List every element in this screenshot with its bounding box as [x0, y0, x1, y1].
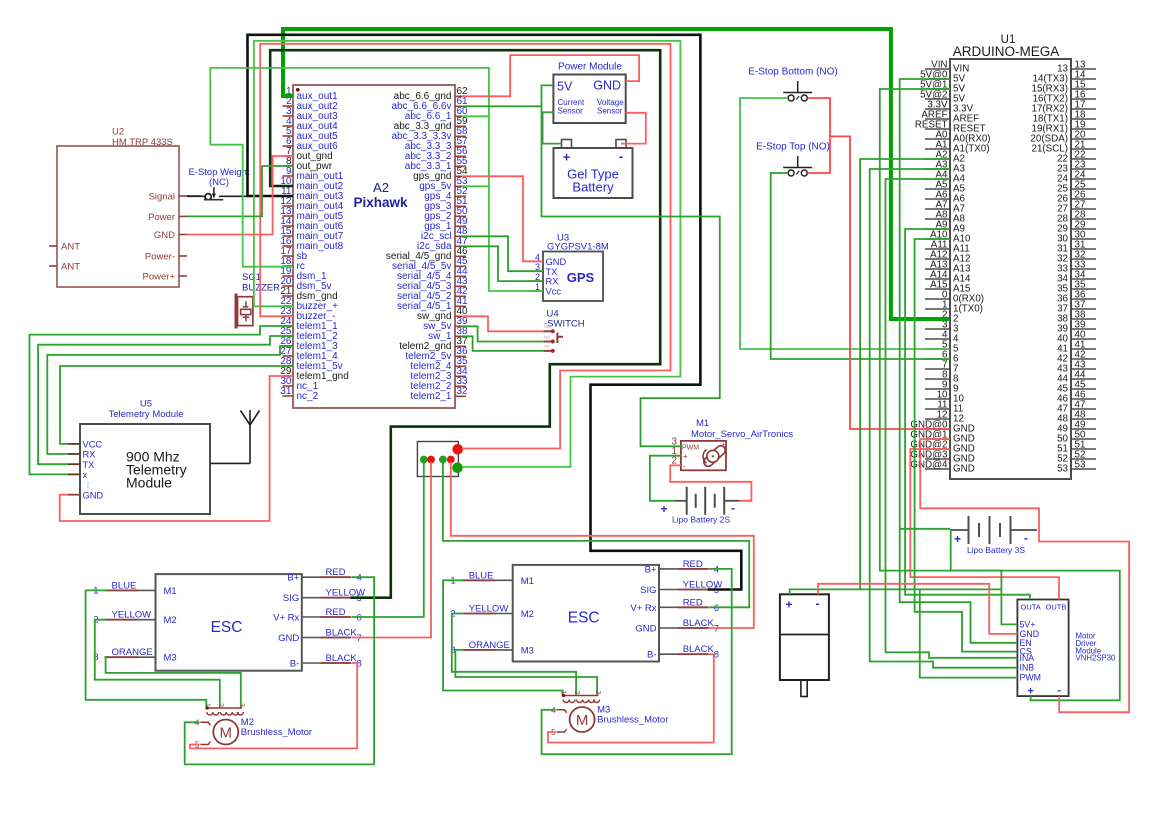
buzzer SG1: [236, 272, 280, 329]
connector block: [417, 442, 463, 477]
Arduino Mega U1: [910, 34, 1096, 479]
wire green 5V@0 to motor driver EN: [900, 79, 1018, 643]
wire green A9 to motor driver OUTA: [905, 229, 1030, 600]
wire green sw_1 to switch pin: [462, 336, 543, 351]
wire green current sensor to gel battery +: [543, 112, 562, 143]
svg-text:U5: U5: [140, 399, 152, 410]
svg-text:32: 32: [457, 386, 469, 397]
wire green A4 to motor driver INA: [886, 179, 1018, 658]
brushless motor M2: [195, 703, 312, 750]
wire thick green pin1 to Arduino pin 2: [283, 29, 950, 319]
battery Lipo 2S: [660, 487, 739, 525]
svg-text:Power+: Power+: [143, 271, 176, 282]
svg-text:4: 4: [714, 564, 719, 575]
wire green left ESC M2 to coil2: [95, 620, 220, 706]
svg-text:Brushless_Motor: Brushless_Motor: [241, 727, 312, 738]
svg-text:Brushless_Motor: Brushless_Motor: [597, 715, 668, 726]
wire green power module 5V to servo PWM: [542, 85, 720, 446]
svg-text:RX: RX: [546, 277, 559, 287]
svg-text:SIG: SIG: [283, 593, 299, 604]
svg-text:YELLOW: YELLOW: [112, 610, 152, 621]
svg-text:M1: M1: [521, 576, 534, 587]
svg-text:VCC: VCC: [83, 440, 103, 450]
svg-text:GND: GND: [154, 230, 175, 241]
wire green telem1_1 to U5 x: [30, 326, 294, 474]
wire green telem1_5v to U5 VCC: [60, 366, 293, 444]
wire red U2 GND to out_gnd: [187, 156, 293, 235]
wire green right ESC M2 to coil2: [452, 614, 576, 694]
wire green i2c_sda to GPS RX: [462, 246, 543, 281]
svg-text:GND: GND: [278, 633, 299, 644]
wire red servo minus to Lipo 2S minus: [670, 465, 751, 500]
svg-text:-SWITCH: -SWITCH: [544, 319, 585, 330]
svg-text:Sensor: Sensor: [558, 107, 584, 116]
svg-text:ORANGE: ORANGE: [469, 640, 510, 651]
wire red telem1_gnd to U5 GND: [60, 376, 293, 521]
svg-text:M3: M3: [164, 653, 177, 664]
svg-text:NO: NO: [544, 345, 550, 349]
svg-text:Motor_Servo_AirTronics: Motor_Servo_AirTronics: [691, 429, 793, 440]
svg-text:INA: INA: [1020, 653, 1035, 663]
svg-text:V+ Rx: V+ Rx: [630, 603, 656, 614]
svg-text:+: +: [683, 452, 688, 461]
svg-text:ORANGE: ORANGE: [112, 647, 153, 658]
wire green right ESC M3 to coil3: [455, 650, 597, 694]
svg-text:+: +: [660, 502, 667, 516]
svg-text:OUTB: OUTB: [1046, 603, 1067, 612]
wire green A2 to DC motor +: [790, 159, 1002, 594]
svg-text:ARDUINO-MEGA: ARDUINO-MEGA: [953, 44, 1060, 59]
svg-text:RED: RED: [683, 559, 703, 570]
svg-text:A2: A2: [373, 180, 389, 195]
wire green E-Stop Top to Arduino 6: [771, 173, 950, 359]
wire green sw_5v to switch pin: [462, 326, 543, 341]
wire red voltage sensor to gel battery -: [621, 113, 646, 144]
svg-text:B+: B+: [645, 564, 657, 575]
svg-text:Pixhawk: Pixhawk: [353, 195, 408, 210]
svg-text:M: M: [220, 725, 233, 742]
svg-text:GPS: GPS: [567, 270, 595, 285]
wire green connector to right ESC V+ Rx: [443, 462, 749, 607]
svg-text:ESC: ESC: [211, 619, 243, 636]
svg-text:-: -: [683, 462, 686, 471]
svg-text:+: +: [563, 150, 571, 165]
wire red E-Stop commons to GND@0: [808, 98, 951, 429]
wire dark green pin10 to left ESC SIG: [270, 50, 660, 598]
wire red connector to left ESC GND: [352, 462, 431, 638]
svg-text:Vcc: Vcc: [546, 287, 562, 297]
svg-text:-: -: [731, 501, 735, 515]
svg-text:Power-: Power-: [145, 251, 175, 262]
svg-text:HM TRP 433S: HM TRP 433S: [112, 137, 173, 148]
antenna: [210, 410, 260, 463]
flight controller A2 Pixhawk: [280, 85, 468, 408]
svg-text:SG1: SG1: [242, 272, 261, 283]
svg-text:E-Stop Bottom (NO): E-Stop Bottom (NO): [748, 67, 837, 78]
RF module U2 HM TRP 433S: [49, 127, 187, 287]
GPS module U3 GYGPSV1-8M: [527, 233, 609, 301]
svg-text:nc_2: nc_2: [297, 391, 319, 402]
wire green connector to left ESC V+ Rx: [352, 462, 424, 617]
wire green 5V@1 to motor driver +: [880, 89, 1120, 700]
svg-text:M3: M3: [521, 645, 534, 656]
telemetry module U5: [68, 399, 210, 515]
svg-text:Power: Power: [148, 212, 175, 223]
wire light green E-Stop Bottom to Arduino 5: [740, 98, 950, 349]
svg-text:BLUE: BLUE: [112, 580, 137, 591]
svg-text:B-: B-: [647, 650, 657, 661]
svg-text:GYGPSV1-8M: GYGPSV1-8M: [547, 242, 609, 253]
svg-text:V+ Rx: V+ Rx: [273, 613, 299, 624]
wire green Lipo 2S plus to servo +: [650, 456, 681, 501]
svg-text:VNH2SP30: VNH2SP30: [1076, 654, 1117, 663]
svg-text:E-Stop Top (NO): E-Stop Top (NO): [756, 142, 830, 153]
svg-text:TX: TX: [546, 267, 558, 277]
svg-text:Signal: Signal: [149, 191, 175, 202]
svg-text:PWM: PWM: [682, 444, 699, 451]
svg-text:31: 31: [280, 386, 292, 397]
wire red GND@2 to motor driver OUTB: [910, 449, 1059, 600]
wire green right ESC M1 to coil1: [443, 580, 562, 693]
svg-text:RED: RED: [683, 597, 703, 608]
svg-text:+: +: [1027, 686, 1033, 698]
svg-text:YELLOW: YELLOW: [469, 604, 509, 615]
wire green i2c_scl to GPS TX: [462, 236, 543, 271]
svg-text:7: 7: [714, 624, 719, 635]
svg-text:BLUE: BLUE: [469, 570, 494, 581]
svg-text:telem2_1: telem2_1: [410, 391, 452, 402]
wire red abc_6.6_gnd to power module GND: [462, 55, 639, 96]
svg-text:GND: GND: [83, 490, 104, 500]
svg-text:ANT: ANT: [61, 261, 80, 272]
svg-text:M1: M1: [696, 418, 709, 429]
svg-text:U2: U2: [112, 127, 124, 138]
pushbutton E-Stop Top (NO): [756, 142, 830, 177]
svg-text:M: M: [576, 712, 589, 729]
svg-text:GND: GND: [953, 464, 975, 475]
pushbutton E-Stop Bottom (NO): [748, 67, 837, 102]
svg-text:(NC): (NC): [209, 177, 229, 188]
svg-text:PWM: PWM: [1020, 673, 1042, 683]
wire red buzzer to connector red dot: [260, 44, 670, 449]
wire green left ESC B+ to motor M2 pin4: [185, 577, 374, 764]
wire green left ESC M3 to coil3: [106, 657, 241, 706]
svg-text:RED: RED: [326, 567, 346, 578]
svg-text:5V: 5V: [557, 80, 573, 94]
servo M1 Motor_Servo_AirTronics: [671, 418, 793, 471]
svg-text:Telemetry Module: Telemetry Module: [109, 409, 184, 420]
svg-text:M1: M1: [164, 586, 177, 597]
DC motor: [780, 594, 829, 696]
svg-text:GND: GND: [593, 79, 621, 93]
wire green telem1_3 to U5 RX: [47, 346, 293, 454]
wire green Lipo 3S plus to motor driver 5V+: [900, 529, 1018, 625]
svg-text:ESC: ESC: [568, 610, 600, 627]
motor driver module VNH2SP30: [1017, 600, 1116, 698]
svg-text:NO: NO: [544, 335, 550, 339]
svg-text:-: -: [1024, 531, 1028, 545]
svg-text:GND: GND: [546, 257, 567, 267]
wire red motor M3 pin5 to right ESC B-: [548, 654, 714, 742]
svg-text:53: 53: [1057, 464, 1068, 475]
svg-text:Lipo Battery 2S: Lipo Battery 2S: [672, 515, 730, 525]
svg-text:M2: M2: [521, 609, 534, 620]
battery Lipo 3S: [950, 516, 1037, 555]
wire red sw_gnd to switch pin: [462, 316, 543, 331]
svg-text:53: 53: [1075, 460, 1086, 471]
switch E-Stop Weight (NC): [187, 167, 250, 200]
svg-text:OUTA: OUTA: [1021, 603, 1041, 612]
svg-text:4: 4: [357, 573, 362, 584]
svg-text:Module: Module: [126, 475, 172, 491]
wire red connector to right ESC GND: [451, 462, 754, 628]
wire light green 5V net to GPS Vcc: [210, 68, 543, 291]
svg-text:-: -: [619, 149, 623, 164]
wire red motor M2 pin5 to left ESC B-: [190, 663, 357, 748]
svg-text:Sensor: Sensor: [597, 107, 623, 116]
wire red GND@1 to Lipo 3S minus: [920, 439, 1039, 530]
svg-text:Battery: Battery: [572, 180, 614, 195]
svg-text:+: +: [954, 532, 961, 546]
svg-text:Power Module: Power Module: [558, 62, 622, 73]
wire green motor driver PWM tap: [920, 589, 1018, 677]
wire black E-Stop Weight to right ESC SIG: [187, 35, 741, 590]
svg-text:SIG: SIG: [640, 585, 656, 596]
wire light green buzzer to connector green dot: [254, 41, 681, 467]
svg-text:ANT: ANT: [61, 241, 80, 252]
ESC left: [93, 567, 365, 670]
svg-text:B-: B-: [290, 659, 300, 670]
wire green A10 to motor driver CS: [915, 239, 1018, 652]
svg-text:RX: RX: [83, 450, 96, 460]
brushless motor M3: [551, 691, 668, 738]
wire red motor driver minus to Lipo 3S minus: [1039, 530, 1129, 712]
svg-text:TX: TX: [83, 460, 95, 470]
svg-text:-: -: [816, 597, 820, 611]
wire green abc_6.6_6.6v to 5V: [462, 105, 542, 107]
svg-text:Lipo Battery 3S: Lipo Battery 3S: [967, 545, 1025, 555]
wire green U2 Power to out_pwr: [187, 166, 293, 216]
wire green telem1_2 to U5 TX: [38, 336, 293, 464]
svg-text:B+: B+: [287, 573, 299, 584]
power module: [553, 62, 625, 124]
wire red DC motor minus to motor driver GND: [818, 584, 1017, 634]
svg-text:7: 7: [357, 633, 362, 644]
switch U4: [543, 309, 584, 353]
battery Gel Type: [554, 140, 633, 199]
svg-text:6: 6: [714, 603, 719, 614]
svg-text:RED: RED: [326, 607, 346, 618]
svg-text:6: 6: [357, 613, 362, 624]
svg-text:INB: INB: [1020, 663, 1035, 673]
svg-text:NO: NO: [544, 325, 550, 329]
svg-text:5V+: 5V+: [1020, 619, 1036, 629]
wire green left ESC M1 to coil1: [86, 590, 207, 706]
svg-text:M2: M2: [164, 615, 177, 626]
wire green A3 to motor driver INB: [870, 169, 1018, 668]
wire green right ESC B+ to motor M3 pin4: [542, 569, 732, 754]
svg-text:+: +: [785, 598, 792, 612]
svg-text:⋮: ⋮: [85, 482, 92, 489]
svg-text:-: -: [1057, 685, 1061, 697]
svg-text:GND@4: GND@4: [910, 460, 948, 471]
svg-text:GND: GND: [635, 624, 656, 635]
ESC right: [450, 559, 722, 662]
svg-text:x: x: [83, 470, 88, 480]
wire red gps_gnd to GPS GND: [462, 176, 543, 261]
